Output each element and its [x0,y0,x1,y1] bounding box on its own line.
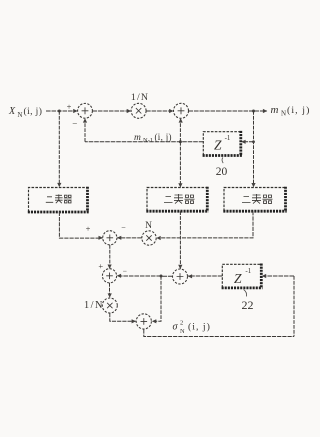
node X input label X_N(i,j) [8,106,42,119]
svg-text:N: N [281,110,286,118]
arrow into S6 left [132,319,136,323]
wire Z22 output to S5 [188,275,222,277]
svg-text:Z: Z [214,137,222,152]
multiplier M2 (x N) [142,231,156,245]
wire M3 output down and right to S6 [110,313,136,321]
svg-text:-1: -1 [245,267,251,275]
svg-text:20: 20 [216,166,228,178]
svg-text:−: − [123,267,127,276]
label Z^-1 in Z20 [214,134,231,152]
summing junction S6 [136,314,151,329]
svg-text:m: m [271,104,279,116]
arrow into Z22 right edge [262,274,266,278]
svg-text:m: m [134,133,141,143]
wire S5 node to S4 [117,275,161,277]
arrow into Z20 right edge [241,140,245,144]
arrow into S3 right [117,236,121,240]
wire node down to S6 [152,276,161,321]
block left squarer [28,187,89,212]
svg-text:−: − [121,223,126,232]
arrow to m_N output [263,109,267,113]
arrow into S3 left [99,236,103,240]
wire feedback vertical right side [293,276,295,337]
leader squiggle for 22 [244,290,247,297]
delay block Z20 [203,131,242,156]
arrow into M2 right [156,236,160,240]
wire input X to S1 [46,110,78,112]
kanji text center squarer [164,194,195,204]
summing junction S3 [103,231,117,245]
wire feedback right into Z22 [266,275,294,277]
arrow into S6 right [152,319,156,323]
arrow into S4 right [117,274,121,278]
kanji text right squarer [242,194,273,204]
arrow into S1 left [73,109,77,113]
node output label sigma^2_N(i,j) [173,320,211,335]
wire m_N branch down to right squarer [253,111,255,183]
wire M1 to S2 [146,110,173,112]
wire Z20 output feedback to left [85,141,203,143]
wire sigma output bottom feedback [144,329,294,336]
node junction feedback at x180 [179,140,182,143]
leader squiggle for 20 [222,158,223,164]
summing junction S2 [174,103,189,118]
wire left squarer output down and right to S3 [59,212,102,238]
summing junction S5 [173,269,188,284]
wire feedback down into center squarer [179,142,181,184]
summing junction S1 [78,103,93,118]
svg-text:-1: -1 [225,134,231,142]
wire S2 to output m_N [189,110,268,112]
block right squarer [223,187,286,212]
wire feedback up into S1 [84,119,86,142]
arrow into center squarer top [178,183,182,187]
arrow into S2 left [169,109,173,113]
wire center squarer output down to S5 [179,211,181,269]
svg-text:X: X [8,106,16,117]
svg-text:22: 22 [242,298,254,312]
svg-text:N: N [18,112,23,119]
svg-text:N: N [145,221,152,231]
node junction S5 output [160,275,163,278]
wire S3 output down to S4 [109,245,111,269]
wire S1 to M1 [92,110,131,112]
block center squarer [146,187,208,212]
summing junction S4 [102,269,116,283]
wire branch down to left squarer [58,111,60,183]
wire feedback up into S2 [179,119,181,142]
kanji text left squarer [46,194,72,203]
arrow into S2 bottom [179,118,183,122]
wire right squarer output down and left to M2 [161,211,254,238]
multiplier M3 (x 1/N) [102,298,117,313]
svg-text:σ: σ [173,322,179,333]
svg-text:N: N [180,328,185,335]
svg-text:(i, j): (i, j) [188,322,211,333]
arrow into S5 top [178,265,182,269]
svg-text:(i, j): (i, j) [287,105,310,116]
arrow into M1 left [127,109,131,113]
label m_N-1(i,j) [134,132,172,144]
node output label m_N(i,j) [271,104,311,118]
wire M2 to S3 [117,237,142,239]
svg-text:2: 2 [180,320,183,327]
wire S4 output down to M3 [109,283,111,298]
svg-text:+: + [98,261,103,271]
svg-text:+: + [86,223,91,233]
arrow into S4 top [108,265,112,269]
label Z^-1 in Z22 [234,267,252,286]
node junction input branch [58,110,61,113]
svg-text:(i, j): (i, j) [155,132,172,142]
svg-text:+: + [67,102,72,112]
arrow into S1 bottom [83,118,87,122]
arrow into left squarer top [57,183,61,187]
svg-text:N-1: N-1 [143,137,153,144]
svg-text:Z: Z [234,271,242,286]
wire S5 to node [161,275,173,277]
node junction into Z20 [252,140,255,143]
delay block Z22 [222,264,263,288]
svg-text:1/N: 1/N [84,300,104,311]
arrow into right squarer top [251,183,255,187]
node junction m_N branch [252,110,255,113]
svg-text:−: − [72,119,77,129]
multiplier M1 (x 1/N) [131,103,146,118]
svg-text:1/N: 1/N [131,92,149,103]
svg-text:(i, j): (i, j) [24,106,43,117]
arrow into M3 top [108,293,112,297]
arrow into S5 right [188,274,192,278]
wire into delay Z20 [246,141,254,143]
